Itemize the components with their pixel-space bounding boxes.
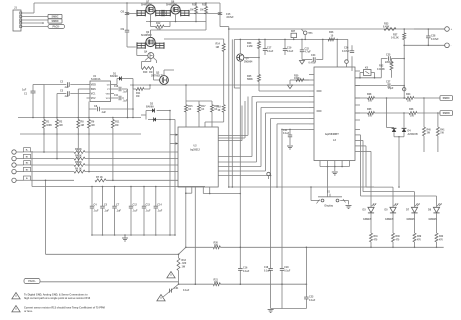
svg-text:0.1uF: 0.1uF [287,50,294,53]
svg-text:0.1uF: 0.1uF [284,271,291,273]
svg-text:VC1: VC1 [91,92,96,95]
svg-text:BAV99: BAV99 [110,75,118,78]
svg-text:R15: R15 [188,106,193,108]
svg-text:1M: 1M [59,124,62,127]
svg-text:.1uF: .1uF [146,210,151,213]
svg-text:1K: 1K [214,109,217,111]
svg-text:.1uF: .1uF [123,100,128,102]
svg-text:C11: C11 [114,95,119,97]
svg-text:1M: 1M [190,9,193,12]
svg-text:GREEN: GREEN [363,218,372,221]
svg-text:R17: R17 [201,106,206,108]
svg-text:0.1uF: 0.1uF [264,271,271,273]
svg-text:VC2: VC2 [91,97,96,100]
svg-text:100K: 100K [294,77,300,80]
svg-text:R36: R36 [396,236,401,238]
svg-text:.1uF: .1uF [94,210,99,213]
svg-text:C18: C18 [264,267,269,269]
svg-text:GREEN: GREEN [429,218,438,221]
svg-text:C24: C24 [311,54,316,57]
svg-text:R39: R39 [417,236,422,238]
svg-text:100: 100 [407,100,412,103]
svg-text:R27: R27 [291,31,296,33]
svg-text:R4 1K: R4 1K [75,154,82,157]
svg-text:1M: 1M [91,124,94,127]
svg-text:1M: 1M [200,9,203,12]
svg-text:100K: 100K [46,124,52,127]
svg-text:R40: R40 [427,128,432,131]
svg-text:R31: R31 [374,236,379,238]
svg-text:C16: C16 [114,86,119,88]
svg-text:bq29312: bq29312 [190,149,200,152]
svg-text:100: 100 [157,28,162,31]
svg-text:GREEN: GREEN [385,218,394,221]
svg-text:1K: 1K [201,109,204,111]
svg-text:Current sense resistor R13 sho: Current sense resistor R13 should have T… [24,306,105,309]
svg-text:.047uF: .047uF [226,16,234,19]
svg-text:SMBD: SMBD [443,112,450,115]
svg-text:0.1uF: 0.1uF [283,132,290,135]
svg-text:C27: C27 [386,81,391,84]
svg-text:141.3K: 141.3K [377,68,385,71]
svg-text:100: 100 [410,115,415,118]
svg-text:R16: R16 [192,4,197,7]
svg-text:.1uF: .1uF [116,210,121,213]
svg-text:SMBC: SMBC [443,97,450,100]
svg-text:R5 1K: R5 1K [75,161,82,164]
svg-text:C25: C25 [386,54,391,57]
svg-text:0.1uF: 0.1uF [183,289,190,292]
svg-text:SMBD: SMBD [51,20,58,23]
svg-text:100: 100 [368,100,373,103]
svg-text:S-8244A: S-8244A [91,78,101,81]
svg-text:R6 1K: R6 1K [75,167,82,170]
svg-text:TP1: TP1 [308,32,313,35]
svg-text:1K: 1K [188,109,191,111]
svg-text:R3 1K: R3 1K [75,148,82,151]
svg-text:8.45K: 8.45K [383,26,390,29]
svg-text:1M: 1M [81,124,84,127]
svg-text:0.1uF: 0.1uF [309,299,316,302]
svg-text:0.1uF: 0.1uF [267,50,274,53]
svg-text:1M: 1M [216,46,219,49]
svg-text:1K: 1K [218,110,221,112]
svg-text:R41: R41 [440,128,445,131]
svg-text:2N7002LT1: 2N7002LT1 [151,74,164,77]
svg-text:R10: R10 [143,71,148,74]
svg-text:C31: C31 [174,287,179,290]
svg-text:R18: R18 [202,4,207,7]
svg-text:C13: C13 [146,203,151,206]
svg-text:R28: R28 [367,93,372,96]
svg-text:R19: R19 [214,106,219,108]
svg-text:C14: C14 [157,203,162,206]
svg-text:R36: R36 [409,108,414,111]
svg-text:BAV99: BAV99 [146,105,154,108]
svg-text:VDD: VDD [91,83,96,86]
svg-text:141.2K: 141.2K [391,37,399,40]
svg-text:15pF: 15pF [388,87,394,90]
svg-text:C12: C12 [133,203,138,206]
svg-text:bq2084DBT: bq2084DBT [325,133,339,136]
svg-text:2N3904: 2N3904 [244,61,253,64]
svg-text:.1uF: .1uF [101,111,106,114]
svg-text:0.1uF: 0.1uF [243,270,250,273]
svg-text:0.47uF: 0.47uF [309,62,317,65]
svg-text:R24: R24 [406,93,411,96]
svg-text:C9: C9 [121,27,125,31]
svg-text:B-: B- [26,178,28,180]
svg-text:0.47uF: 0.47uF [431,38,439,41]
svg-text:R35: R35 [367,108,372,111]
svg-text:1M: 1M [115,124,118,127]
svg-text:AZ23C05: AZ23C05 [408,133,419,136]
svg-text:PACK-: PACK- [52,26,60,29]
svg-text:C6: C6 [121,9,125,13]
svg-text:.1uF: .1uF [64,86,69,89]
svg-text:.1uF: .1uF [133,210,138,213]
svg-text:1M: 1M [136,95,139,98]
svg-text:PACK-: PACK- [28,280,36,283]
svg-text:high current path at a single: high current path at a single point at s… [24,297,91,300]
svg-text:R7 1K: R7 1K [96,176,103,179]
svg-text:VSS: VSS [106,93,111,95]
svg-text:R42: R42 [439,235,444,238]
svg-text:1uF: 1uF [22,89,27,92]
svg-text:2.2M: 2.2M [247,45,252,48]
svg-text:SMBC: SMBC [51,16,58,19]
svg-text:SNS: SNS [91,88,96,91]
svg-text:GREEN: GREEN [407,218,416,221]
svg-text:.1uF: .1uF [123,91,128,93]
svg-text:.1uF: .1uF [157,210,162,213]
svg-text:.1uF: .1uF [64,95,69,98]
svg-text:or less.: or less. [24,310,33,313]
svg-text:.1uF: .1uF [104,210,109,213]
svg-text:R12: R12 [156,22,161,25]
svg-text:Display: Display [325,205,334,208]
svg-text:586K: 586K [247,78,253,81]
svg-text:C29: C29 [284,267,289,269]
svg-text:100: 100 [368,115,373,118]
svg-text:CO: CO [107,84,110,86]
svg-text:4.7uF: 4.7uF [305,51,312,54]
svg-text:0.47uF: 0.47uF [342,50,350,53]
